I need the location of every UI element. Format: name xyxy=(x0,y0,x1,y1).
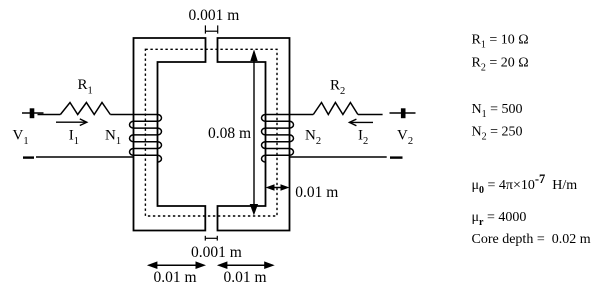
wire N2 to R2 xyxy=(290,114,314,116)
resistor R2 xyxy=(313,103,358,115)
air gap marker bottom xyxy=(205,236,217,241)
wire V1+ to R1 xyxy=(38,114,61,116)
core left half xyxy=(134,38,206,231)
svg-text:0.01 m: 0.01 m xyxy=(154,269,197,286)
dimension arrow 0.01 m (right leg) xyxy=(268,187,287,189)
dimension arrow 0.08 m xyxy=(253,57,255,207)
air gap marker top xyxy=(205,25,217,33)
wire bottom right xyxy=(290,156,387,158)
terminal - of V2 xyxy=(390,156,403,158)
svg-text:0.001 m: 0.001 m xyxy=(189,7,240,24)
wire bottom left xyxy=(36,156,134,158)
wire R1 to N1 xyxy=(110,114,133,116)
svg-text:0.01 m: 0.01 m xyxy=(295,184,338,201)
wire R2 to V2+ xyxy=(358,114,383,116)
svg-text:0.01 m: 0.01 m xyxy=(224,269,267,286)
dimension arrow 0.01 m bottom right xyxy=(219,264,274,266)
svg-text:0.08 m: 0.08 m xyxy=(208,125,251,142)
terminal + of V2 xyxy=(390,108,416,118)
dimension arrow 0.01 m bottom left xyxy=(149,264,205,266)
resistor R1 xyxy=(60,103,110,115)
svg-text:Core depth = 0.02 m: Core depth = 0.02 m xyxy=(472,232,591,247)
winding N1 coil xyxy=(130,115,162,163)
current arrow I1 xyxy=(56,119,87,126)
terminal + of V1 xyxy=(22,108,44,118)
terminal - of V1 xyxy=(23,156,34,158)
mean flux path (dotted) xyxy=(145,49,277,216)
core right half xyxy=(218,38,290,231)
svg-text:0.001 m: 0.001 m xyxy=(191,244,242,261)
current arrow I2 xyxy=(349,119,373,126)
winding N2 coil xyxy=(262,115,294,163)
